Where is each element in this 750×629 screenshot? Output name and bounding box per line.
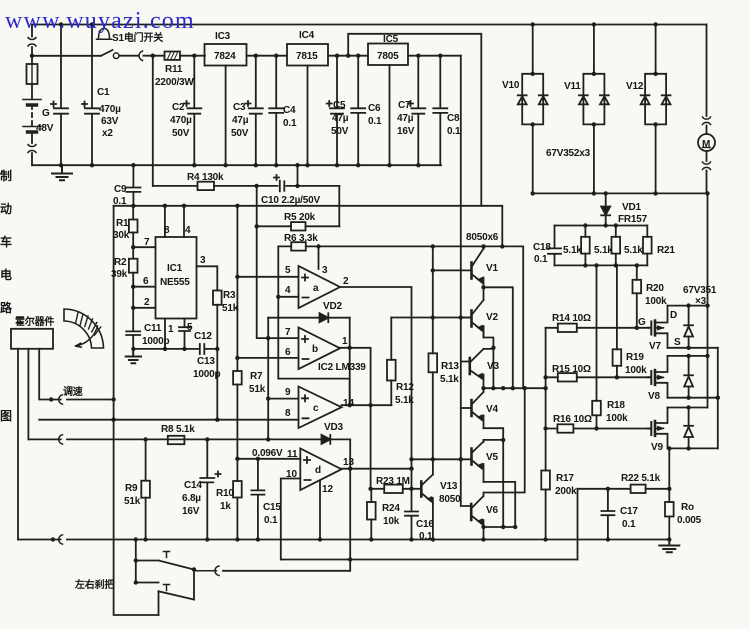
capacitor C11 1000p: [126, 308, 140, 349]
svg-text:调速: 调速: [63, 385, 83, 398]
wire +5V / driver base chain column: [461, 56, 471, 506]
svg-text:R11: R11: [165, 64, 183, 75]
svg-text:0.005: 0.005: [677, 515, 702, 526]
wire op-amp a Vcc stub pin3: [318, 246, 320, 269]
svg-text:8050: 8050: [439, 494, 461, 505]
wire totem bottom row: [484, 526, 516, 528]
wire throttle row to left column: [67, 399, 114, 401]
svg-text:39k: 39k: [111, 269, 128, 280]
resistor R16 10ohm row: [546, 424, 649, 432]
wire V5e tap: [484, 482, 516, 527]
wire R12 top row to V2 base: [391, 317, 471, 319]
capacitor C14 6.8u 16V: [200, 439, 220, 539]
diode VD2 row: [268, 313, 350, 322]
wire pin1 stub: [164, 319, 166, 349]
svg-text:IC2 LM339: IC2 LM339: [318, 362, 366, 373]
resistor R18 100k: [592, 265, 601, 428]
svg-text:R22 5.1k: R22 5.1k: [621, 473, 661, 484]
svg-text:NE555: NE555: [160, 277, 190, 288]
wire VD3/brake column: [223, 439, 350, 570]
svg-text:4: 4: [185, 225, 191, 236]
svg-text:48V: 48V: [36, 123, 54, 134]
svg-text:6: 6: [143, 276, 149, 287]
resistor R17 200k: [541, 471, 550, 490]
svg-text:11: 11: [287, 449, 298, 460]
svg-text:6.8µ: 6.8µ: [182, 493, 201, 504]
wire c + input row: [268, 398, 298, 400]
diode VD1 FR157: [601, 194, 610, 226]
transistor V1: [472, 246, 484, 287]
svg-text:R6 3.3k: R6 3.3k: [284, 233, 318, 244]
svg-text:470µ: 470µ: [170, 115, 192, 126]
svg-text:C18: C18: [533, 242, 551, 253]
svg-text:100k: 100k: [625, 365, 647, 376]
svg-text:0.096V: 0.096V: [252, 448, 283, 459]
resistor bank 5.1k #1: [581, 226, 590, 266]
svg-text:d: d: [315, 465, 321, 476]
svg-text:S: S: [674, 337, 681, 348]
resistor R9 51k: [141, 439, 150, 539]
svg-text:R10: R10: [216, 488, 234, 499]
svg-text:c: c: [313, 403, 319, 414]
capacitor C15 0.1: [251, 459, 264, 540]
svg-text:0.1: 0.1: [534, 254, 548, 265]
ground symbol main: [52, 165, 72, 180]
wire V1e/V2c tap to output bus: [484, 287, 513, 388]
ground symbol under C11: [126, 349, 141, 363]
svg-text:VD3: VD3: [324, 422, 343, 433]
throttle arc dial: [64, 309, 104, 348]
svg-text:V12: V12: [626, 81, 644, 92]
wire VD2/b-out column: [349, 318, 351, 406]
wire Vcc rail of IC1 area: [114, 205, 482, 207]
wire drain rail: [707, 193, 709, 407]
svg-text:C4: C4: [283, 105, 296, 116]
svg-text:路: 路: [0, 300, 13, 315]
IC3 7824: [205, 44, 288, 165]
ground bus: [32, 164, 441, 166]
svg-text:Ro: Ro: [681, 502, 694, 513]
svg-text:D: D: [670, 310, 677, 321]
wire pin4 stub: [183, 206, 185, 237]
svg-text:0.1: 0.1: [283, 118, 297, 129]
capacitor C17 0.1: [601, 489, 614, 540]
svg-text:47µ: 47µ: [397, 113, 414, 124]
svg-text:0.1: 0.1: [622, 519, 636, 530]
wire pin1/C12/C13 bottom row: [133, 348, 217, 350]
body diode V7: [684, 306, 693, 348]
svg-text:R4 130k: R4 130k: [187, 172, 224, 183]
svg-text:C9: C9: [114, 184, 127, 195]
resistor R15 10ohm row: [546, 373, 649, 381]
svg-text:2200/3W: 2200/3W: [155, 77, 194, 88]
S1 bell icon: [97, 26, 112, 39]
connector throttle: [59, 395, 63, 404]
wire hall lead 3 to throttle row: [39, 349, 60, 400]
wire a + input row: [237, 276, 298, 278]
capacitor C2 470u 50V: [184, 56, 201, 166]
svg-text:5.1k: 5.1k: [440, 374, 459, 385]
wire c output row: [342, 404, 392, 406]
svg-text:7815: 7815: [296, 51, 318, 62]
svg-text:R3: R3: [223, 290, 236, 301]
svg-text:动: 动: [0, 202, 12, 216]
IC5 7805: [368, 44, 461, 166]
diode pair V10: [518, 25, 548, 194]
svg-text:R19: R19: [626, 352, 644, 363]
MOSFET V7: [648, 306, 667, 348]
svg-text:1000p: 1000p: [142, 336, 169, 347]
svg-text:V6: V6: [486, 505, 498, 516]
svg-text:C13: C13: [197, 356, 215, 367]
svg-text:10k: 10k: [383, 516, 400, 527]
resistor R19 100k: [613, 265, 622, 377]
capacitor C8 0.1: [433, 56, 447, 166]
svg-text:6: 6: [285, 347, 291, 358]
body diode V9: [684, 408, 693, 449]
resistor R13 5.1k column: [429, 246, 438, 459]
wire pin7 row: [133, 246, 155, 248]
svg-text:51k: 51k: [222, 303, 239, 314]
resistor R3 51k: [213, 291, 222, 349]
capacitor C9 0.1: [126, 165, 140, 206]
wire 0.096V row (d + input): [237, 458, 300, 460]
svg-text:R21: R21: [657, 245, 675, 256]
resistor R7 51k column: [233, 206, 242, 459]
left edge faint vertical text: [0, 168, 13, 423]
wire V7 source row: [668, 347, 718, 349]
svg-text:67V352x3: 67V352x3: [546, 148, 591, 159]
op-amp a: [299, 266, 341, 308]
capacitor C13 1000p (series in row): [200, 344, 205, 354]
svg-text:13: 13: [343, 457, 355, 468]
wire C10 right leg down to R5: [338, 186, 340, 226]
svg-text:V11: V11: [564, 81, 581, 92]
resistor R14 10ohm row: [546, 324, 649, 332]
svg-text:R1: R1: [116, 218, 129, 229]
svg-text:R2: R2: [114, 257, 127, 268]
svg-text:12: 12: [322, 484, 334, 495]
capacitor C10 2.2u/50V: [274, 175, 339, 191]
svg-text:M: M: [702, 139, 710, 150]
svg-text:C15: C15: [263, 502, 281, 513]
svg-text:470µ: 470µ: [99, 104, 121, 115]
resistor R5 20k: [257, 222, 340, 230]
svg-text:50V: 50V: [231, 128, 249, 139]
svg-text:S1电门开关: S1电门开关: [112, 31, 163, 44]
wire feedback/brake row: [281, 559, 578, 561]
svg-text:R7: R7: [250, 371, 263, 382]
transistor V3: [469, 349, 484, 388]
wire hall lead 1 to ground row: [17, 349, 19, 540]
svg-text:R9: R9: [125, 483, 138, 494]
svg-text:67V351: 67V351: [683, 285, 717, 296]
wire d - input row and feedback: [281, 479, 301, 560]
svg-text:R13: R13: [441, 361, 459, 372]
resistor R2 39k: [129, 247, 138, 287]
R21 bank frame and C18: [548, 226, 647, 266]
resistor R1 30k: [129, 206, 138, 247]
svg-text:10: 10: [286, 469, 298, 480]
wire V9 source row: [668, 447, 718, 449]
svg-text:100k: 100k: [606, 413, 628, 424]
diode pair V12: [641, 25, 671, 194]
wire pin3 to R3: [197, 266, 218, 290]
IC4 7815: [287, 44, 368, 165]
svg-text:16V: 16V: [397, 126, 415, 137]
svg-text:5: 5: [285, 265, 291, 276]
wire hall lead 2 to R8 row: [27, 349, 29, 440]
svg-text:R18: R18: [607, 400, 625, 411]
svg-text:200k: 200k: [555, 486, 577, 497]
connector brake: [194, 566, 219, 576]
resistor R12 5.1k: [387, 318, 396, 406]
svg-text:0.1: 0.1: [419, 531, 433, 542]
wire c - input row (pin 8, from hall): [39, 419, 298, 421]
svg-text:VD1: VD1: [622, 202, 641, 213]
diode pair V11: [579, 25, 609, 194]
resistor R22 5.1k row: [578, 485, 670, 560]
capacitor C16 0.1: [405, 489, 418, 540]
resistor R20 100k: [633, 265, 642, 327]
svg-text:5.1k: 5.1k: [624, 245, 643, 256]
svg-text:V3: V3: [487, 361, 499, 372]
svg-text:1: 1: [168, 324, 174, 335]
svg-text:V1: V1: [486, 263, 498, 274]
transistor V6: [471, 496, 483, 540]
capacitor C1 (pair) column 1: [51, 25, 68, 166]
svg-text:0.1: 0.1: [368, 116, 382, 127]
wire pin12 ground stub: [319, 481, 321, 540]
svg-text:16V: 16V: [182, 506, 200, 517]
svg-text:VD2: VD2: [323, 301, 342, 312]
resistor R23 1M row: [371, 485, 412, 493]
resistor R24 10k: [367, 489, 376, 540]
svg-text:8050x6: 8050x6: [466, 232, 499, 243]
wire motor bottom row: [533, 192, 708, 194]
svg-text:a: a: [313, 283, 319, 294]
wire R3 bottom to pin8 row: [216, 349, 218, 420]
svg-text:5.1k: 5.1k: [563, 245, 582, 256]
svg-text:47µ: 47µ: [232, 115, 249, 126]
svg-text:电: 电: [0, 267, 12, 282]
resistor bank 5.1k #2: [612, 226, 621, 266]
svg-text:C16: C16: [416, 519, 434, 530]
wire driver rail (R6 row to V1 collector): [319, 246, 524, 388]
svg-text:C17: C17: [620, 506, 638, 517]
svg-text:C14: C14: [184, 480, 202, 491]
diode VD3 row (R8 row): [28, 435, 350, 444]
switch S1 lever and contacts: [32, 50, 165, 56]
svg-text:50V: 50V: [331, 126, 349, 137]
wire switched +48V column to R4: [152, 56, 154, 186]
capacitor C1 (pair) column 2: [82, 25, 99, 166]
battery G column with connectors: [28, 25, 36, 166]
wire comparator + input column: [267, 318, 269, 440]
svg-text:C11: C11: [144, 323, 162, 334]
wire V6c tap up to output bus: [484, 388, 525, 496]
svg-text:9: 9: [285, 387, 291, 398]
svg-text:IC1: IC1: [167, 263, 183, 274]
svg-text:V10: V10: [502, 80, 520, 91]
svg-text:C6: C6: [368, 103, 381, 114]
Hall device box: [11, 329, 53, 349]
svg-text:1k: 1k: [220, 501, 231, 512]
wire pin2 row: [133, 287, 155, 308]
battery cells G 48V: [23, 100, 41, 133]
capacitor C4 0.1: [269, 56, 283, 166]
resistor R8 5.1k: [168, 436, 185, 444]
svg-text:0.1: 0.1: [447, 126, 461, 137]
fuse: [27, 64, 38, 84]
svg-text:V2: V2: [486, 312, 498, 323]
svg-text:V7: V7: [649, 341, 661, 352]
wire R6 left / a- column to c-out: [278, 246, 349, 405]
svg-text:R24: R24: [382, 503, 400, 514]
wire V4e/V5c tap: [484, 428, 504, 527]
wire source node down through Ro: [668, 448, 670, 539]
wire b output to R23 column: [340, 348, 371, 489]
svg-text:5.1k: 5.1k: [594, 245, 613, 256]
svg-text:8: 8: [164, 225, 170, 236]
svg-text:霍尔器件: 霍尔器件: [15, 315, 54, 328]
wire V9 drain row: [668, 407, 708, 409]
resistor R11 2200/3W: [165, 52, 206, 60]
svg-text:8: 8: [285, 408, 291, 419]
svg-text:7805: 7805: [377, 51, 399, 62]
svg-text:FR157: FR157: [618, 214, 648, 225]
svg-text:100k: 100k: [645, 296, 667, 307]
svg-text:30k: 30k: [113, 230, 130, 241]
svg-text:×3: ×3: [695, 296, 707, 307]
svg-text:IC4: IC4: [299, 30, 315, 41]
capacitor C12: [179, 319, 190, 349]
wire V8 drain row: [668, 355, 708, 357]
svg-text:63V: 63V: [101, 116, 119, 127]
svg-text:V9: V9: [651, 442, 663, 453]
svg-text:7: 7: [144, 237, 150, 248]
capacitor C7 47u 16V: [408, 56, 425, 166]
wire V8 source row: [668, 397, 718, 399]
ground symbol right: [659, 540, 679, 553]
body diode V8: [684, 356, 693, 398]
svg-text:7: 7: [285, 327, 291, 338]
svg-text:1: 1: [342, 336, 348, 347]
svg-text:www.wuyazi.com: www.wuyazi.com: [5, 8, 195, 34]
svg-text:R12: R12: [396, 382, 414, 393]
connector ground row: [59, 535, 63, 544]
svg-text:R15 10Ω: R15 10Ω: [552, 364, 591, 375]
wire node row to R13/V5 base: [412, 458, 472, 460]
svg-text:C5: C5: [333, 100, 346, 111]
svg-text:3: 3: [322, 265, 328, 276]
wire a - input row: [278, 296, 298, 298]
wire pin6 row: [133, 286, 155, 288]
svg-text:C7: C7: [398, 100, 411, 111]
svg-text:IC5: IC5: [383, 34, 399, 45]
wire +15V over-route to driver rail: [348, 34, 502, 247]
MOSFET V9: [648, 408, 667, 449]
svg-text:R23 1M: R23 1M: [376, 476, 410, 487]
svg-text:V4: V4: [486, 404, 498, 415]
brake switches: [136, 540, 194, 616]
resistor R6 3.3k: [278, 242, 318, 250]
MOSFET V8: [648, 356, 667, 398]
wire ground row: [18, 539, 669, 541]
svg-text:C10 2.2µ/50V: C10 2.2µ/50V: [261, 195, 320, 206]
transistor V5: [471, 440, 483, 482]
svg-text:7824: 7824: [214, 51, 236, 62]
wire gate feed column: [545, 328, 547, 540]
svg-text:R8 5.1k: R8 5.1k: [161, 424, 195, 435]
svg-text:51k: 51k: [124, 496, 141, 507]
wire left long column: [114, 206, 159, 615]
svg-text:R14 10Ω: R14 10Ω: [552, 313, 591, 324]
svg-text:车: 车: [0, 234, 12, 249]
svg-text:C1: C1: [97, 87, 110, 98]
wire source rail: [717, 348, 719, 449]
svg-text:51k: 51k: [249, 384, 266, 395]
svg-text:R20: R20: [646, 283, 664, 294]
resistor R4 130k row: [153, 182, 278, 190]
transistor V4: [472, 388, 484, 428]
svg-text:14: 14: [343, 398, 355, 409]
wire driver output bus row: [484, 387, 546, 389]
svg-text:V13: V13: [440, 481, 458, 492]
svg-text:IC3: IC3: [215, 31, 231, 42]
wire a output: [340, 287, 412, 489]
svg-text:G: G: [638, 317, 646, 328]
wire base stub V4: [461, 407, 471, 409]
svg-text:2: 2: [343, 276, 349, 287]
svg-text:制: 制: [0, 168, 12, 183]
svg-text:C8: C8: [447, 113, 460, 124]
svg-text:左右刹把: 左右刹把: [74, 578, 114, 591]
wire R4 node column down to b+ input: [257, 186, 299, 338]
svg-text:2: 2: [144, 297, 150, 308]
wire ground bus tap to R4/C10 row: [297, 165, 299, 186]
capacitor C3 47u 50V: [246, 56, 263, 166]
svg-text:x2: x2: [102, 128, 113, 139]
resistor R10 1k column: [233, 459, 242, 540]
svg-text:0.1: 0.1: [113, 196, 127, 207]
svg-text:C12: C12: [194, 331, 212, 342]
svg-text:b: b: [312, 344, 318, 355]
op-amp c: [299, 387, 342, 429]
svg-text:5: 5: [187, 322, 193, 333]
svg-text:R17: R17: [556, 473, 574, 484]
wire b - input row: [237, 357, 298, 359]
svg-text:3: 3: [200, 255, 206, 266]
op-amp d: [300, 449, 341, 491]
svg-text:0.1: 0.1: [264, 515, 278, 526]
resistor Ro 0.005: [665, 502, 674, 517]
IC1 NE555 box: [156, 237, 197, 319]
motor M: [698, 25, 715, 194]
transistor V13 8050: [412, 459, 433, 539]
svg-text:50V: 50V: [172, 128, 190, 139]
svg-text:R16 10Ω: R16 10Ω: [553, 414, 592, 425]
svg-text:4: 4: [285, 285, 291, 296]
transistor V2: [462, 287, 484, 337]
op-amp b: [299, 328, 341, 370]
svg-text:1000p: 1000p: [193, 369, 220, 380]
svg-text:G: G: [42, 108, 50, 119]
svg-text:5.1k: 5.1k: [395, 395, 414, 406]
svg-text:47µ: 47µ: [332, 113, 349, 124]
wire V7 drain row: [668, 305, 708, 307]
svg-text:C2: C2: [172, 102, 185, 113]
